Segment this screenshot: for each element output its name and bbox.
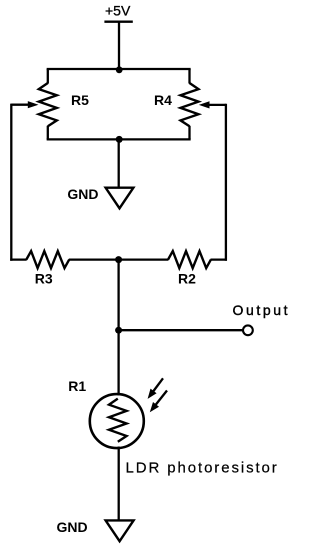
svg-text:LDR photoresistor: LDR photoresistor (126, 459, 279, 476)
wire (R3 to center node) (69, 258, 119, 260)
node (bridge center node) (115, 256, 122, 263)
node (top rail junction) (116, 66, 123, 73)
R4 wiper arrow (210, 104, 226, 106)
ground (bottom) (106, 520, 134, 541)
svg-text:R5: R5 (71, 92, 89, 108)
wire (output branch) (119, 329, 243, 331)
R5 wiper arrow (11, 104, 29, 106)
svg-text:R1: R1 (68, 378, 86, 394)
photoresistor R1 (90, 394, 144, 448)
light arrow 1 (152, 378, 163, 392)
svg-text:GND: GND (67, 186, 98, 202)
wire (left wiper to R3 row) (10, 104, 12, 261)
resistor R2 (168, 251, 211, 268)
svg-text:Output: Output (233, 302, 291, 318)
svg-text:R2: R2 (178, 270, 196, 286)
wire (bottom rail) (48, 138, 190, 140)
ground (middle) (106, 188, 134, 209)
wire (center node down to photoresistor) (117, 260, 119, 396)
+5V supply symbol (104, 21, 132, 23)
wire (photoresistor to ground) (118, 447, 120, 521)
svg-text:GND: GND (57, 519, 88, 535)
node (output tap) (115, 327, 122, 334)
svg-text:R4: R4 (154, 92, 172, 108)
wire (R2 row right lead) (211, 258, 228, 260)
output terminal (243, 325, 253, 335)
resistor R3 (26, 251, 69, 268)
wire (center node to R2) (119, 258, 169, 260)
wire (R3 row left lead) (10, 258, 27, 260)
wire (ground tap) (118, 139, 120, 187)
potentiometer R5 (47, 69, 49, 84)
wire (top rail) (48, 68, 190, 70)
svg-text:R3: R3 (35, 270, 53, 286)
potentiometer R4 (188, 69, 190, 84)
node (bottom rail junction) (116, 136, 123, 143)
light arrow 2 (155, 391, 167, 406)
svg-text:+5V: +5V (105, 3, 131, 19)
wire (right wiper to R2 row) (225, 104, 227, 261)
